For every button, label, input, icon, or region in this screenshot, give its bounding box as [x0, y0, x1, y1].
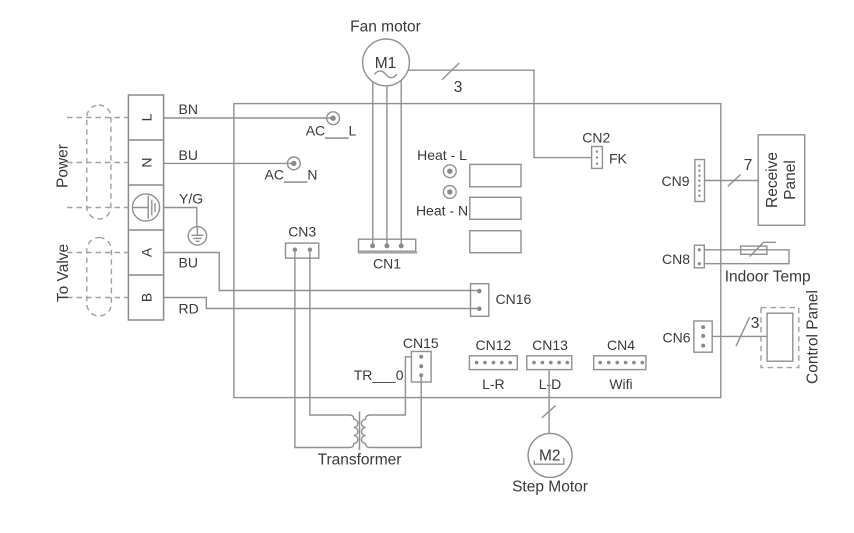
connector CN9 [661, 160, 704, 202]
svg-text:L: L [138, 113, 154, 121]
svg-text:AC___N: AC___N [265, 167, 318, 183]
svg-text:3: 3 [751, 315, 760, 332]
dashed lead line E [67, 207, 128, 209]
terminal L label [138, 113, 154, 121]
terminal Heat-N [443, 186, 456, 199]
terminal AC_L [306, 112, 357, 139]
svg-text:Panel: Panel [782, 160, 799, 200]
connector CN1 [358, 239, 418, 271]
svg-text:CN6: CN6 [662, 330, 690, 346]
heater relay box 3 [470, 231, 521, 253]
Heat - L label [417, 147, 467, 163]
connector CN13 [527, 337, 572, 392]
To Valve cable dashed outline [87, 238, 112, 316]
connector CN8 [662, 245, 704, 268]
svg-text:L-R: L-R [482, 376, 505, 392]
svg-text:BU: BU [179, 147, 198, 163]
svg-text:7: 7 [744, 157, 753, 174]
svg-text:CN16: CN16 [496, 291, 532, 307]
connector CN15 [403, 335, 439, 382]
thermistor indoor temp [725, 242, 811, 285]
wire indoor temp sensor loop [704, 250, 789, 264]
connector CN6 [662, 321, 712, 352]
Power label [55, 144, 72, 188]
slash 3-wire mark on M1 cable [442, 63, 462, 96]
svg-text:FK: FK [609, 150, 628, 166]
svg-text:CN9: CN9 [661, 173, 689, 189]
svg-text:N: N [138, 157, 154, 167]
connector CN2 [582, 129, 627, 168]
terminal Heat-L [443, 165, 456, 178]
fan motor M1 [350, 19, 421, 86]
wire Y/G [164, 191, 204, 227]
terminal N label [138, 157, 154, 167]
wire CN9 to receive panel [705, 180, 759, 182]
svg-text:TR___0: TR___0 [354, 367, 404, 383]
svg-text:Heat - L: Heat - L [417, 147, 467, 163]
svg-text:CN13: CN13 [532, 337, 568, 353]
terminal AC_N [265, 157, 318, 183]
svg-text:Step Motor: Step Motor [512, 479, 588, 496]
svg-text:3: 3 [454, 79, 463, 96]
Control Panel box [767, 290, 821, 384]
terminal B label [138, 293, 154, 302]
heater relay box 1 [470, 164, 521, 186]
svg-text:M2: M2 [539, 448, 561, 465]
To Valve label [55, 244, 72, 302]
TR_0 label [354, 367, 404, 383]
wire CN15 pin1 to transformer secondary top [370, 357, 412, 415]
wire BU to valve A / CN16 [164, 253, 480, 291]
svg-text:M1: M1 [375, 55, 397, 72]
svg-text:A: A [138, 247, 154, 257]
terminal A label [138, 247, 154, 257]
wire CN6 to control panel [712, 335, 767, 337]
connector CN3 [286, 224, 319, 259]
svg-text:Indoor Temp: Indoor Temp [725, 269, 811, 286]
dashed lead line L [67, 117, 128, 119]
svg-text:L-D: L-D [539, 376, 562, 392]
step motor M2 [512, 433, 588, 495]
svg-text:CN12: CN12 [476, 337, 512, 353]
slash 3-wire mark CN6 [736, 315, 759, 347]
svg-text:BN: BN [179, 101, 198, 117]
wire CN3 right pin to transformer primary top [310, 250, 350, 415]
PCB board outline [234, 104, 721, 398]
svg-text:To Valve: To Valve [55, 244, 72, 302]
transformer T1 [318, 412, 402, 469]
svg-text:AC___L: AC___L [306, 123, 357, 139]
svg-text:Heat - N: Heat - N [416, 203, 468, 219]
ground [188, 227, 206, 245]
svg-text:CN2: CN2 [582, 129, 610, 145]
wire CN3 left pin to transformer primary bottom [295, 250, 350, 448]
svg-text:Power: Power [55, 144, 72, 188]
connector CN16 [471, 284, 532, 317]
dashed lead line N [67, 162, 128, 164]
connector CN4 [594, 337, 646, 392]
dashed lead line B [67, 297, 128, 299]
svg-text:B: B [138, 293, 154, 302]
svg-text:CN4: CN4 [607, 337, 635, 353]
wire BU [164, 147, 292, 163]
svg-text:Transformer: Transformer [318, 452, 402, 469]
svg-text:RD: RD [179, 301, 199, 317]
svg-text:Fan motor: Fan motor [350, 19, 421, 36]
Power cable dashed outline [87, 105, 111, 219]
dashed lead line A [67, 252, 128, 254]
terminal block (L N E A B) [128, 95, 163, 320]
slash wire mark step motor [542, 406, 556, 418]
Control Panel dashed outline [761, 308, 799, 368]
wire BN [164, 101, 331, 118]
connector CN12 [469, 337, 517, 392]
svg-text:Y/G: Y/G [179, 191, 203, 207]
svg-text:Control Panel: Control Panel [804, 290, 821, 384]
wire M1 to CN2 [408, 70, 591, 157]
wire CN13 to step motor [548, 370, 550, 434]
wire CN15 pin3 to transformer secondary bottom [370, 375, 422, 447]
svg-text:CN15: CN15 [403, 335, 439, 351]
svg-text:CN3: CN3 [288, 224, 316, 240]
svg-text:Wifi: Wifi [609, 376, 632, 392]
svg-text:CN1: CN1 [373, 256, 401, 272]
protective earth terminal symbol [132, 194, 159, 221]
svg-text:Receive: Receive [764, 152, 781, 208]
heater relay box 2 [470, 197, 521, 219]
Receive Panel box [758, 135, 805, 226]
slash 7-wire mark [728, 157, 753, 186]
svg-text:BU: BU [179, 255, 198, 271]
Heat - N label [416, 203, 468, 219]
wire RD to valve B / CN16 [164, 298, 480, 317]
svg-text:CN8: CN8 [662, 251, 690, 267]
wire M1 phase leads to CN1 [373, 70, 401, 246]
